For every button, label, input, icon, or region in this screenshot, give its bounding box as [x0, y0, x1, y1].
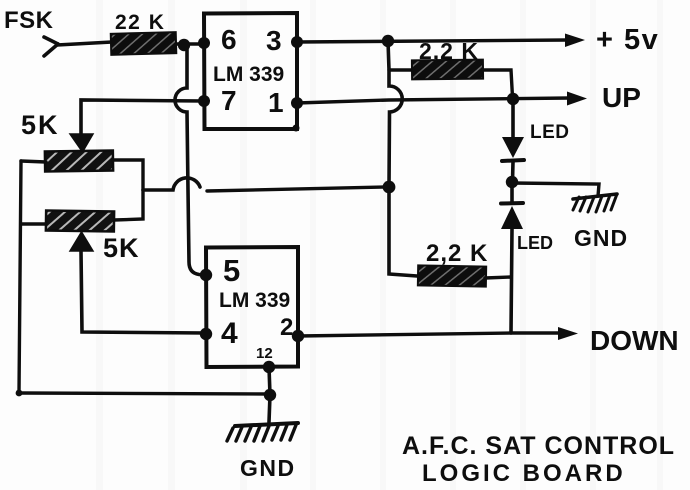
- wire bus to R4: [389, 68, 413, 71]
- input arrow (FSK): [44, 37, 58, 56]
- pin 4: [200, 317, 238, 350]
- svg-text:LED: LED: [530, 122, 570, 143]
- potentiometer R2 wiper arrow: [70, 134, 93, 152]
- wire UP node down to LED D1: [511, 99, 515, 138]
- value 22K: [115, 11, 165, 34]
- title line 1: [402, 432, 675, 460]
- pin 5: [200, 253, 240, 288]
- wire LED node to ground stub: [512, 183, 599, 196]
- svg-text:1: 1: [268, 87, 284, 118]
- pin 1: [268, 87, 303, 118]
- pin 12: [256, 345, 275, 373]
- wire vertical from node to pin5 (with hop over pin7 wire): [175, 48, 203, 275]
- resistor R1 22K: [111, 32, 177, 55]
- label GND (right): [574, 225, 628, 251]
- svg-text:GND: GND: [240, 455, 296, 481]
- potentiometer R2 5K body: [45, 151, 113, 172]
- svg-text:3: 3: [266, 25, 282, 56]
- wire R3 wiper to pin 4: [81, 251, 206, 333]
- wire left bus vertical: [19, 161, 21, 393]
- potentiometer R3 wiper arrow: [70, 232, 93, 251]
- potentiometer R3 5K body: [46, 211, 114, 232]
- svg-text:LOGIC BOARD: LOGIC BOARD: [422, 460, 626, 487]
- svg-text:4: 4: [221, 317, 238, 350]
- value 2,2K: [419, 38, 479, 64]
- svg-text:LM 339: LM 339: [213, 63, 284, 86]
- label +5v: [596, 24, 659, 56]
- svg-text:6: 6: [221, 24, 237, 55]
- wire vertical bus x389 (hop over UP wire): [388, 41, 417, 276]
- node junction UP / LED branch: [507, 93, 519, 105]
- title line 2: [422, 460, 626, 487]
- arrow UP: [567, 92, 587, 106]
- wire pin2 to DOWN: [298, 333, 562, 336]
- ground symbol (bottom): [227, 423, 298, 441]
- label FSK: [4, 7, 54, 34]
- label LED (D2): [517, 233, 553, 253]
- node junction wiper line / vertical bus: [383, 181, 396, 194]
- label 5K (R3): [103, 233, 140, 263]
- resistor R4 2.2K: [412, 60, 483, 80]
- wire R4 to UP node: [483, 70, 513, 97]
- wire pot R3 left to left bus: [21, 222, 46, 225]
- value 2,2K: [426, 240, 488, 267]
- node junction +5v / R4: [382, 35, 394, 47]
- svg-text:FSK: FSK: [4, 7, 54, 34]
- wire pin7 to pot wiper: [81, 100, 204, 134]
- node junction after R1: [178, 39, 190, 51]
- wire LED D2 to DOWN line: [511, 229, 512, 333]
- LED D2: [501, 184, 523, 229]
- arrow +5v: [565, 34, 585, 48]
- wire R5 right to vertical: [485, 277, 511, 278]
- node junction between LEDs: [506, 176, 518, 188]
- wire pot right side loop: [113, 160, 143, 220]
- wire R1 to pin6: [176, 42, 204, 45]
- wire pin3 to +5v: [297, 40, 568, 42]
- svg-text:+ 5v: + 5v: [596, 24, 659, 56]
- svg-text:5K: 5K: [103, 233, 140, 263]
- resistor R5 2.2K: [418, 265, 486, 286]
- LED D1: [502, 137, 524, 181]
- wire FSK to R1: [57, 42, 112, 45]
- svg-text:7: 7: [221, 85, 237, 116]
- svg-text:5: 5: [223, 253, 240, 288]
- wire left bus to gnd node: [19, 393, 270, 394]
- svg-text:5K: 5K: [21, 110, 60, 140]
- svg-text:DOWN: DOWN: [590, 325, 679, 356]
- pin 7: [198, 85, 237, 116]
- label DOWN: [590, 325, 679, 356]
- svg-text:2: 2: [280, 314, 293, 341]
- op-amp U2 LM339 (bottom): [206, 247, 298, 367]
- pin 6: [198, 24, 237, 55]
- wire pin12 to ground: [269, 367, 270, 422]
- pin 3: [266, 25, 303, 56]
- arrow DOWN: [558, 327, 578, 340]
- svg-text:2,2 K: 2,2 K: [426, 240, 488, 267]
- svg-text:GND: GND: [574, 225, 628, 251]
- node junction gnd bus: [264, 389, 276, 401]
- ground symbol (right): [573, 194, 617, 212]
- svg-text:2,2 K: 2,2 K: [419, 38, 479, 64]
- svg-text:LED: LED: [517, 233, 553, 253]
- wire wiper tap to node A (hop over vertical): [143, 178, 200, 190]
- svg-text:A.F.C. SAT CONTROL: A.F.C. SAT CONTROL: [402, 432, 675, 460]
- svg-text:LM 339: LM 339: [219, 289, 290, 312]
- pin 2: [280, 314, 304, 342]
- svg-text:UP: UP: [602, 82, 641, 113]
- label GND (bottom): [240, 455, 296, 481]
- op-amp U1 LM339 (top): [204, 13, 297, 129]
- label 5K (R2): [21, 110, 60, 140]
- wire pot R2 left to left bus: [21, 161, 46, 162]
- svg-text:22 K: 22 K: [115, 11, 165, 34]
- label UP: [602, 82, 641, 113]
- wire pin1 to UP: [297, 98, 570, 103]
- svg-text:12: 12: [256, 345, 273, 362]
- label LED (D1): [530, 122, 570, 143]
- corner dot: [293, 125, 300, 132]
